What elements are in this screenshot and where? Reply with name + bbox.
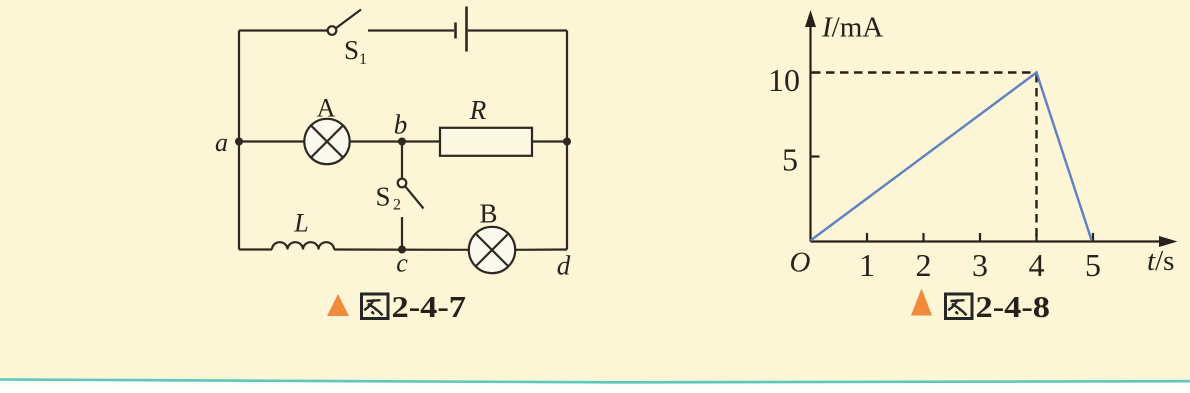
caption glyph 图 (2-4-7)	[362, 294, 389, 319]
lamp B	[469, 227, 515, 273]
svg-text:2: 2	[916, 247, 932, 283]
svg-text:c: c	[396, 249, 408, 278]
wire battery to top-right corner	[468, 29, 567, 31]
x tick 5	[1092, 233, 1094, 242]
wire node b down to switch S2	[401, 142, 403, 179]
caption triangle 图2-4-7	[327, 294, 349, 316]
current curve	[811, 73, 1092, 241]
x tick 4	[1035, 233, 1037, 242]
y tick 10	[811, 71, 820, 73]
wire lamp A to node b	[350, 140, 440, 142]
caption glyph 图 (2-4-8)	[946, 294, 973, 319]
teal page-edge line	[0, 380, 1190, 383]
x axis arrowhead	[1159, 236, 1178, 247]
y axis arrowhead	[805, 10, 816, 27]
svg-text:2: 2	[393, 197, 401, 214]
y axis	[809, 24, 811, 242]
svg-text:b: b	[394, 110, 408, 140]
wire inductor to lamp B	[334, 248, 469, 251]
dashed guide at t=4	[1035, 74, 1037, 240]
y tick 5	[811, 155, 820, 157]
svg-text:S: S	[376, 182, 391, 212]
lamp A	[304, 119, 349, 164]
svg-text:I/mA: I/mA	[821, 12, 883, 44]
svg-text:4: 4	[1029, 247, 1045, 283]
wire switch S1 to battery	[368, 29, 454, 31]
node b junction dot	[398, 138, 406, 146]
resistor R	[440, 128, 532, 156]
wire left vertical a-loop	[238, 31, 240, 250]
x axis	[811, 240, 1165, 242]
x tick 1	[866, 233, 868, 242]
caption triangle 图2-4-8	[911, 289, 932, 316]
svg-text:1: 1	[359, 51, 367, 68]
wire bottom-left corner to inductor	[239, 248, 272, 250]
bottom white strip under page edge	[0, 380, 1190, 389]
svg-text:d: d	[557, 251, 571, 281]
node a junction dot	[235, 138, 243, 146]
svg-text:A: A	[317, 94, 336, 123]
svg-text:5: 5	[782, 142, 798, 178]
x tick 3	[979, 233, 981, 242]
wire switch S2 to node c	[401, 217, 403, 250]
svg-text:L: L	[293, 209, 308, 238]
wire top-left to switch S1	[239, 29, 328, 31]
node junction dot right of R	[563, 138, 571, 146]
svg-text:3: 3	[972, 247, 988, 283]
svg-text:t/s: t/s	[1147, 245, 1174, 277]
switch S2	[398, 179, 424, 209]
inductor L	[272, 242, 334, 249]
switch S1	[328, 10, 361, 35]
wire node a to lamp A	[239, 140, 304, 142]
svg-text:10: 10	[768, 62, 800, 98]
svg-text:2-4-8: 2-4-8	[976, 289, 1051, 324]
wire lamp B to bottom-right corner	[515, 248, 567, 251]
svg-text:a: a	[215, 128, 228, 157]
x tick 2	[922, 233, 924, 242]
svg-text:R: R	[469, 95, 487, 125]
wire right vertical	[566, 31, 568, 250]
dashed guide at I=10	[812, 71, 1037, 73]
svg-text:1: 1	[859, 247, 875, 283]
svg-text:B: B	[479, 199, 497, 229]
node c junction dot	[398, 246, 406, 254]
battery cell	[456, 7, 467, 52]
svg-text:2-4-7: 2-4-7	[392, 289, 467, 324]
svg-text:5: 5	[1085, 247, 1101, 283]
wire resistor to right vertical	[532, 140, 567, 142]
svg-text:S: S	[344, 35, 359, 65]
svg-text:O: O	[790, 247, 811, 279]
